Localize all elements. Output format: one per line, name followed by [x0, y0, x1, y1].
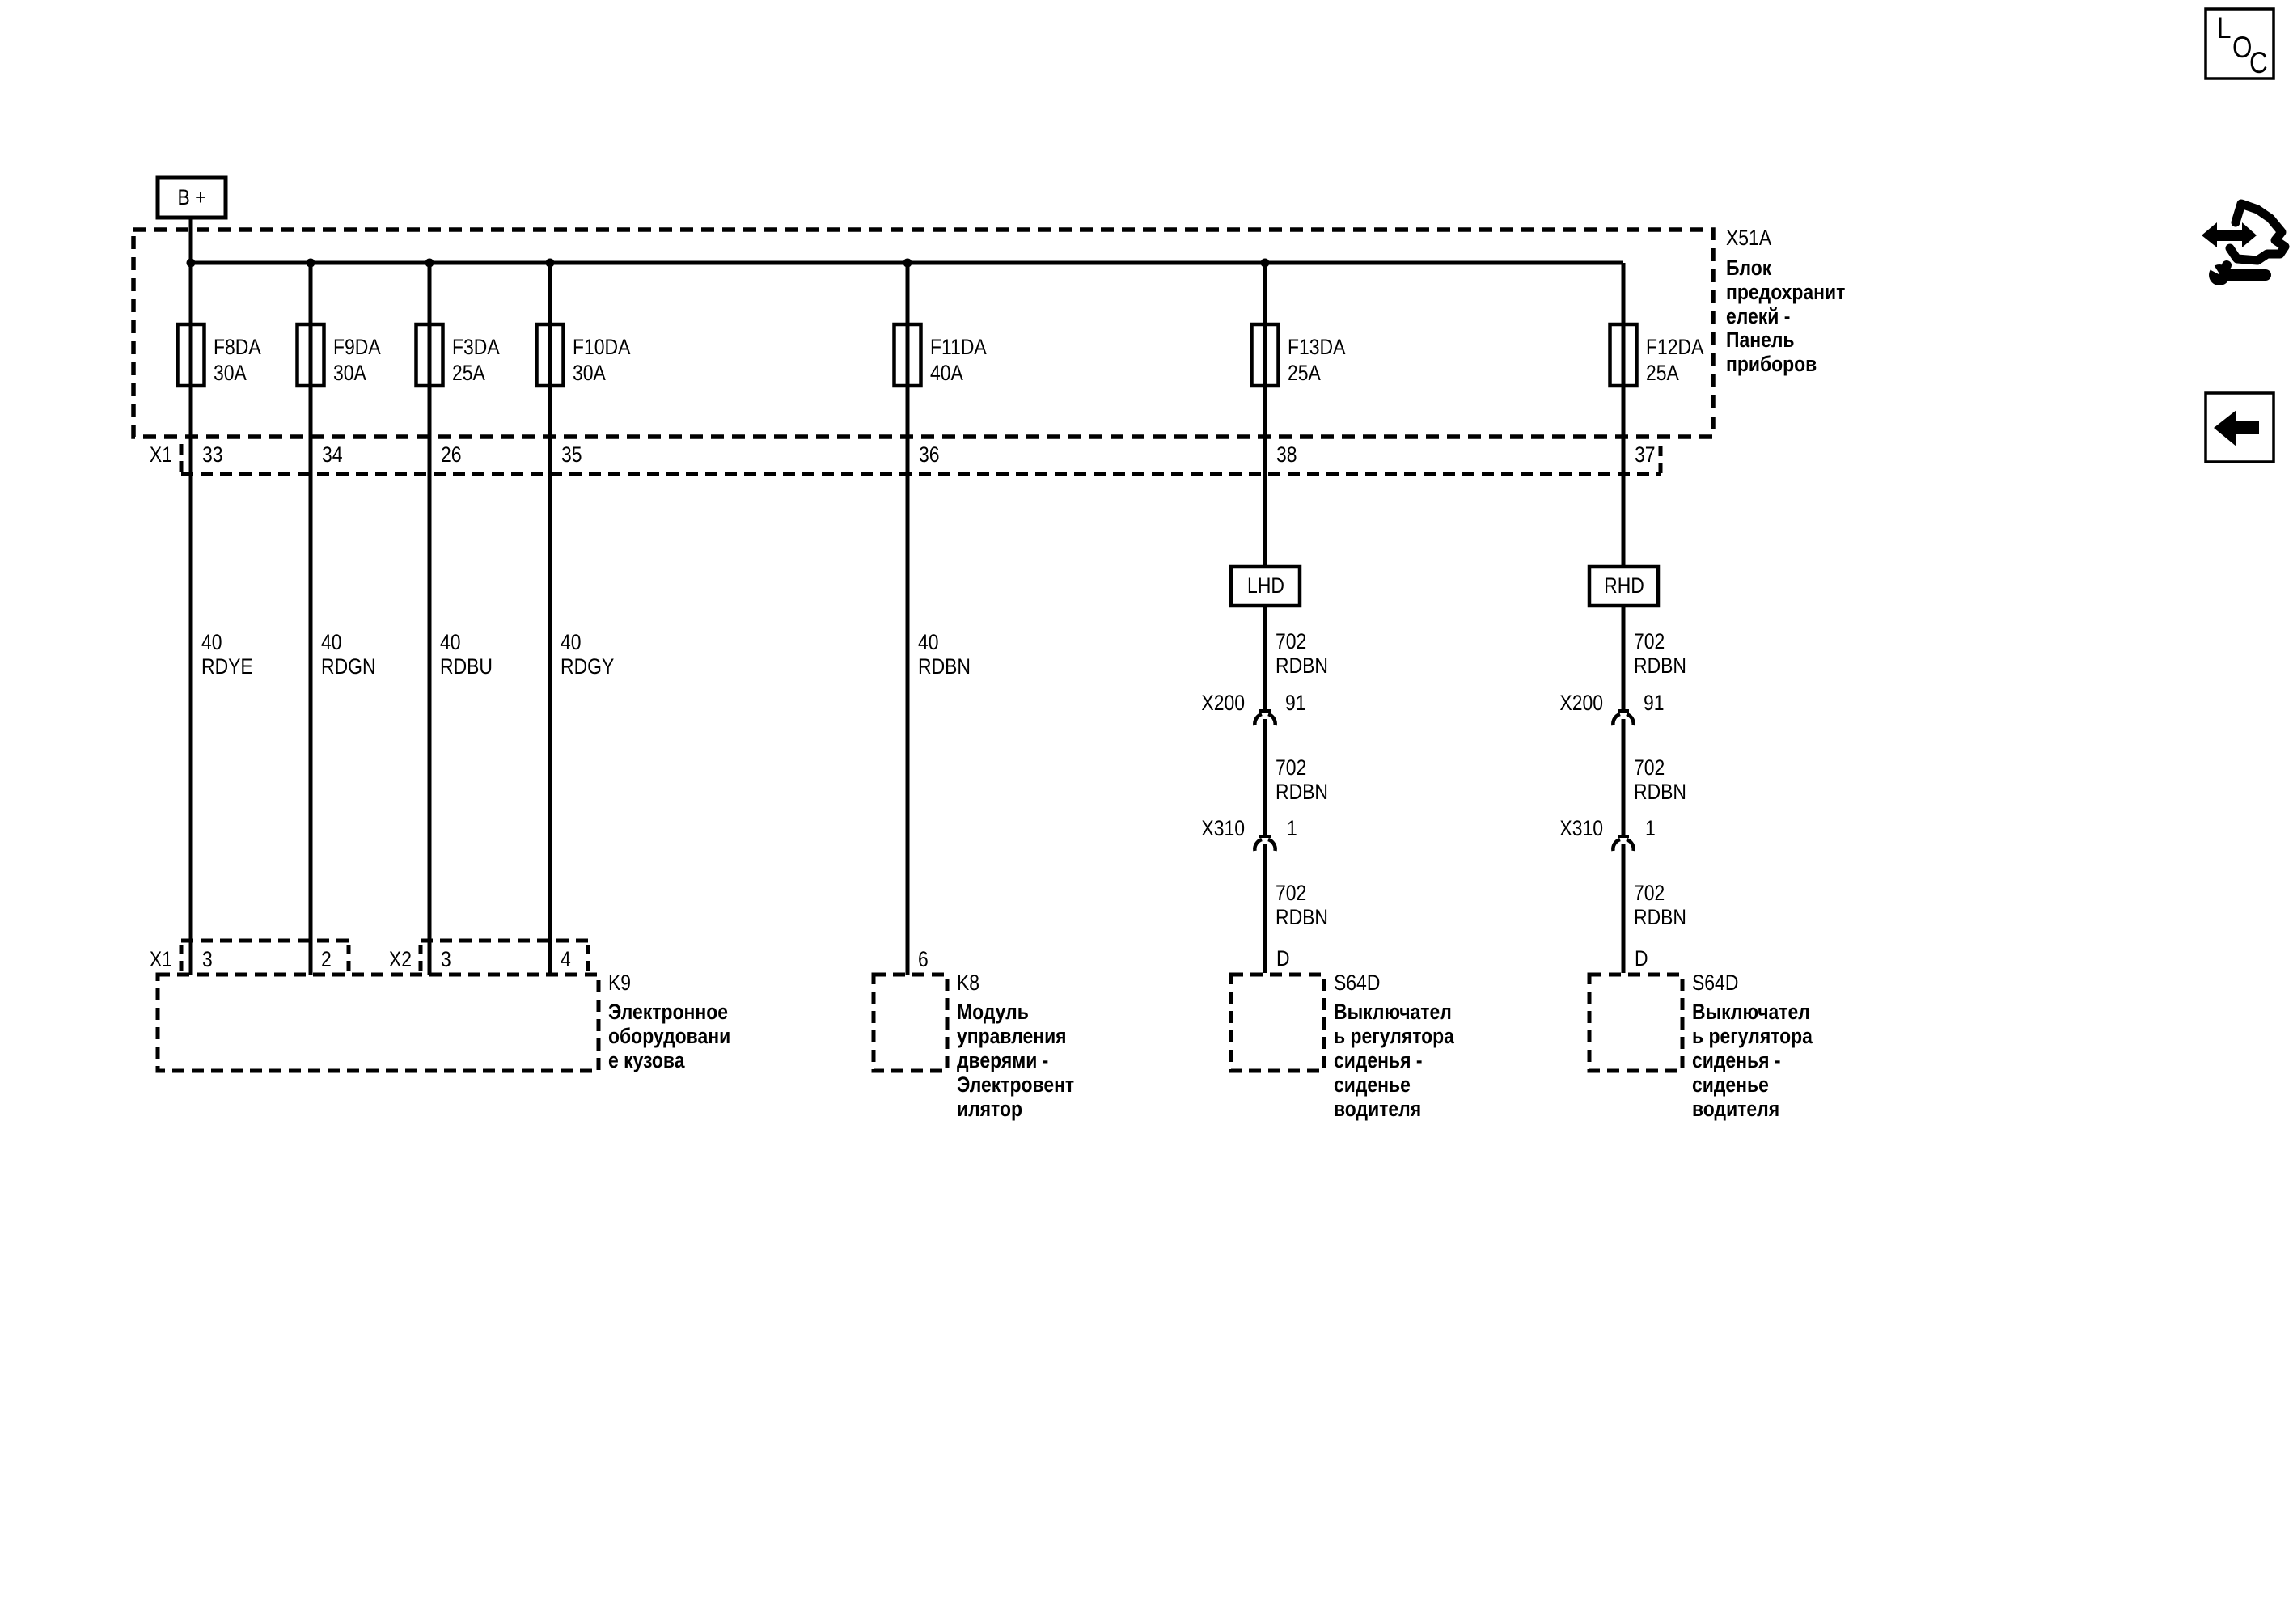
svg-text:D: D	[1276, 946, 1290, 971]
inline connector X310 pin 1 (RHD)	[1559, 816, 1655, 851]
svg-text:F9DA: F9DA	[333, 335, 381, 359]
body electronics module K9 box	[158, 975, 599, 1071]
svg-text:сиденье: сиденье	[1334, 1072, 1411, 1097]
S64D label (LHD)	[1334, 971, 1455, 1121]
svg-text:X200: X200	[1559, 691, 1603, 715]
svg-text:40A: 40A	[930, 361, 963, 385]
K9 connector X2 band (pins 3, 4)	[389, 941, 588, 975]
svg-text:702: 702	[1634, 629, 1665, 653]
svg-text:RDGN: RDGN	[321, 654, 376, 679]
svg-text:водителя: водителя	[1334, 1097, 1421, 1121]
svg-text:сиденье: сиденье	[1692, 1072, 1769, 1097]
svg-text:4: 4	[561, 947, 571, 971]
svg-text:е кузова: е кузова	[608, 1048, 685, 1072]
svg-text:1: 1	[1645, 816, 1656, 840]
svg-text:RDBU: RDBU	[440, 654, 493, 679]
fuse F13DA 25A	[1252, 324, 1346, 386]
svg-text:36: 36	[919, 442, 940, 467]
svg-text:RDBN: RDBN	[1634, 905, 1686, 929]
wire label 40 RDBU	[440, 630, 493, 679]
svg-text:702: 702	[1276, 755, 1306, 780]
X51A connector label and description	[1726, 226, 1845, 376]
svg-text:38: 38	[1276, 442, 1297, 467]
svg-text:1: 1	[1287, 816, 1297, 840]
svg-text:елекй -: елекй -	[1726, 304, 1790, 328]
wire label 702 RDBN (RHD lower)	[1634, 881, 1686, 929]
wire label 702 RDBN (LHD middle)	[1276, 755, 1328, 804]
svg-text:RDBN: RDBN	[1276, 780, 1328, 804]
wire label 702 RDBN (LHD lower)	[1276, 881, 1328, 929]
svg-text:ь регулятора: ь регулятора	[1334, 1024, 1455, 1048]
fuse F11DA 40A	[895, 324, 987, 386]
svg-text:40: 40	[561, 630, 582, 654]
wire through fuse F10DA to K9	[548, 263, 552, 975]
svg-text:предохранит: предохранит	[1726, 280, 1845, 304]
svg-text:RDBN: RDBN	[1634, 653, 1686, 678]
wire through fuse F3DA to K9	[428, 263, 432, 975]
bus junction dots	[187, 259, 196, 268]
svg-text:34: 34	[322, 442, 343, 467]
svg-text:3: 3	[441, 947, 451, 971]
fuse F3DA 25A	[417, 324, 500, 386]
K9 connector X1 band (pins 3, 2)	[150, 941, 349, 975]
wire through fuse F12DA (RHD branch)	[1622, 263, 1626, 566]
svg-text:702: 702	[1634, 755, 1665, 780]
svg-text:RDYE: RDYE	[201, 654, 253, 679]
svg-text:6: 6	[918, 947, 929, 971]
svg-text:Модуль: Модуль	[957, 1000, 1029, 1024]
svg-text:K9: K9	[608, 971, 631, 995]
svg-text:управления: управления	[957, 1024, 1067, 1048]
svg-text:40: 40	[201, 630, 222, 654]
wire from B+ through fuse F8DA to K9 pin 3	[189, 218, 193, 975]
svg-text:сиденья -: сиденья -	[1334, 1048, 1423, 1072]
RHD option box	[1589, 566, 1658, 606]
svg-text:приборов: приборов	[1726, 352, 1817, 376]
svg-text:F13DA: F13DA	[1288, 335, 1346, 359]
service info icon (double arrow, hose, wrench)	[2202, 204, 2285, 285]
svg-text:Электронное: Электронное	[608, 1000, 728, 1024]
svg-text:F11DA: F11DA	[930, 335, 987, 359]
battery feed B+ box	[158, 177, 226, 218]
LOC legend box	[2206, 9, 2274, 80]
svg-text:F8DA: F8DA	[214, 335, 261, 359]
bus wire from B+	[191, 261, 1623, 265]
LHD option box	[1231, 566, 1300, 606]
fuse F9DA 30A	[298, 324, 381, 386]
svg-text:X310: X310	[1201, 816, 1245, 840]
K9 label	[608, 971, 730, 1072]
svg-text:F10DA: F10DA	[573, 335, 631, 359]
back arrow box	[2206, 393, 2274, 462]
svg-text:X2: X2	[389, 947, 412, 971]
svg-text:Блок: Блок	[1726, 256, 1772, 280]
svg-text:25A: 25A	[452, 361, 485, 385]
svg-text:оборудовани: оборудовани	[608, 1024, 730, 1048]
svg-text:K8: K8	[957, 971, 979, 995]
fuse block connector X1 band	[150, 442, 1661, 476]
wire through fuse F11DA to K8 pin 6	[906, 263, 910, 975]
svg-text:30A: 30A	[333, 361, 366, 385]
svg-text:40: 40	[321, 630, 342, 654]
svg-text:40: 40	[440, 630, 461, 654]
svg-text:X200: X200	[1201, 691, 1245, 715]
door control module K8 box	[874, 975, 947, 1071]
svg-text:X51A: X51A	[1726, 226, 1771, 250]
svg-text:RDGY: RDGY	[561, 654, 615, 679]
svg-text:33: 33	[202, 442, 223, 467]
svg-text:702: 702	[1634, 881, 1665, 905]
wire label 40 RDYE	[201, 630, 253, 679]
wire label 40 RDGY	[561, 630, 615, 679]
svg-text:702: 702	[1276, 881, 1306, 905]
wire through fuse F9DA to K9	[309, 263, 313, 975]
wire label 702 RDBN (LHD upper)	[1276, 629, 1328, 678]
wire through fuse F13DA (LHD branch)	[1263, 263, 1267, 566]
svg-text:30A: 30A	[214, 361, 247, 385]
svg-text:40: 40	[918, 630, 939, 654]
switch S64D box (RHD)	[1589, 975, 1682, 1071]
svg-text:Панель: Панель	[1726, 328, 1795, 352]
svg-text:Выключател: Выключател	[1692, 1000, 1810, 1024]
inline connector X200 pin 91 (RHD)	[1559, 691, 1664, 725]
fuse F12DA 25A	[1610, 324, 1704, 386]
inline connector X200 pin 91 (LHD)	[1201, 691, 1305, 725]
svg-text:X1: X1	[150, 442, 172, 467]
wire label 702 RDBN (RHD middle)	[1634, 755, 1686, 804]
svg-text:X1: X1	[150, 947, 172, 971]
svg-text:3: 3	[202, 947, 213, 971]
svg-text:S64D: S64D	[1692, 971, 1738, 995]
svg-text:RDBN: RDBN	[1276, 653, 1328, 678]
S64D label (RHD)	[1692, 971, 1813, 1121]
svg-text:37: 37	[1635, 442, 1656, 467]
svg-text:91: 91	[1644, 691, 1665, 715]
svg-text:илятор: илятор	[957, 1097, 1022, 1121]
svg-text:RHD: RHD	[1604, 573, 1644, 598]
fuse block X51A dashed outline	[133, 230, 1713, 437]
K8 label	[957, 971, 1074, 1121]
svg-text:RDBN: RDBN	[1634, 780, 1686, 804]
svg-text:F3DA: F3DA	[452, 335, 500, 359]
svg-text:35: 35	[561, 442, 582, 467]
svg-text:RDBN: RDBN	[1276, 905, 1328, 929]
svg-text:B +: B +	[177, 185, 205, 209]
svg-text:F12DA: F12DA	[1646, 335, 1704, 359]
svg-text:S64D: S64D	[1334, 971, 1380, 995]
svg-text:Выключател: Выключател	[1334, 1000, 1452, 1024]
svg-text:D: D	[1635, 946, 1648, 971]
switch S64D box (LHD)	[1231, 975, 1324, 1071]
svg-text:X310: X310	[1559, 816, 1603, 840]
svg-text:25A: 25A	[1288, 361, 1321, 385]
svg-text:LHD: LHD	[1247, 573, 1284, 598]
svg-text:91: 91	[1285, 691, 1306, 715]
svg-text:Электровент: Электровент	[957, 1072, 1074, 1097]
inline connector X310 pin 1 (LHD)	[1201, 816, 1297, 851]
svg-text:25A: 25A	[1646, 361, 1679, 385]
svg-text:ь регулятора: ь регулятора	[1692, 1024, 1813, 1048]
wire label 40 RDBN	[918, 630, 971, 679]
svg-text:2: 2	[321, 947, 332, 971]
svg-text:30A: 30A	[573, 361, 606, 385]
svg-text:RDBN: RDBN	[918, 654, 971, 679]
svg-text:L: L	[2217, 12, 2231, 45]
fuse F10DA 30A	[537, 324, 631, 386]
svg-text:дверями -: дверями -	[957, 1048, 1048, 1072]
fuse F8DA 30A	[178, 324, 261, 386]
svg-text:702: 702	[1276, 629, 1306, 653]
wire label 40 RDGN	[321, 630, 376, 679]
svg-text:сиденья -: сиденья -	[1692, 1048, 1781, 1072]
svg-text:26: 26	[441, 442, 462, 467]
svg-text:C: C	[2249, 47, 2268, 80]
svg-text:водителя: водителя	[1692, 1097, 1779, 1121]
wire label 702 RDBN (RHD upper)	[1634, 629, 1686, 678]
